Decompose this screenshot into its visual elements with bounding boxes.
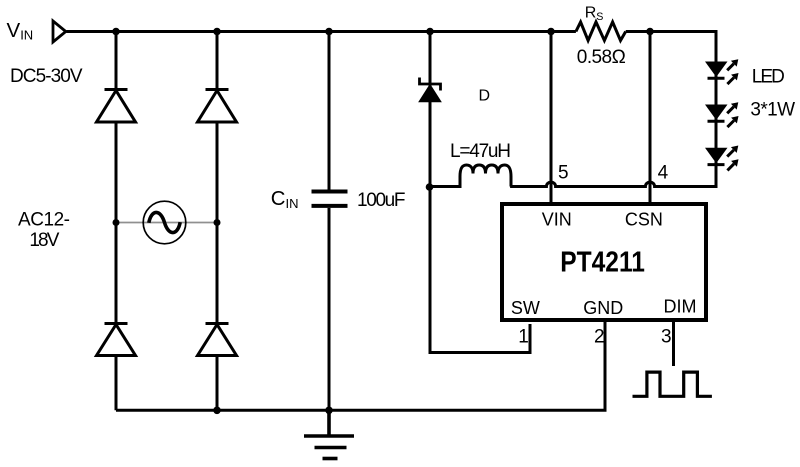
svg-text:LED: LED	[752, 66, 785, 87]
AC source V1	[143, 201, 186, 244]
wire LED chain	[715, 32, 718, 188]
node junction top rail / pin5	[547, 28, 555, 36]
svg-text:PT4211: PT4211	[560, 247, 645, 279]
node junction bottom rail / ground	[325, 407, 333, 415]
node junction bottom rail / right leg	[213, 407, 221, 415]
svg-text:4: 4	[658, 163, 669, 184]
wire top rail (RS right to LED chain)	[626, 30, 718, 33]
wire AC source connector	[116, 222, 217, 224]
capacitor CIN plates	[312, 192, 348, 206]
LED D6	[705, 102, 739, 127]
wire pin5 VIN lead	[550, 32, 553, 203]
PWM dimming waveform	[633, 372, 712, 396]
diode D1 (bridge upper-left)	[97, 90, 136, 123]
wire diode-D branch and SW loop	[430, 32, 530, 353]
svg-text:D: D	[479, 88, 491, 105]
node junction top rail / pin4	[646, 28, 654, 36]
diode D2 (bridge upper-right)	[198, 90, 237, 123]
svg-text:18V: 18V	[29, 230, 59, 251]
node junction top rail / left leg	[112, 28, 120, 36]
ground symbol	[304, 410, 354, 458]
svg-text:2: 2	[594, 327, 605, 348]
node junction inductor / diode / SW	[426, 183, 434, 191]
wire pin4 CSN lead	[649, 32, 652, 203]
wire bridge right leg	[216, 32, 219, 411]
svg-text:100uF: 100uF	[357, 190, 406, 211]
node junction top rail / CIN	[325, 28, 333, 36]
svg-text:DIM: DIM	[664, 297, 697, 317]
inductor L1	[430, 165, 512, 187]
wire output line with hops (inductor to LED chain)	[510, 182, 717, 186]
LED D7	[705, 146, 739, 171]
node junction top rail / right leg	[213, 28, 221, 36]
wire DIM pin lead	[672, 322, 675, 366]
svg-text:GND: GND	[583, 298, 623, 318]
wire top rail (VIN to RS left)	[67, 30, 576, 33]
svg-text:AC12-: AC12-	[18, 209, 70, 230]
svg-text:DC5-30V: DC5-30V	[10, 66, 83, 87]
svg-text:CSN: CSN	[625, 210, 663, 230]
svg-text:3*1W: 3*1W	[750, 100, 795, 121]
diode D4 (bridge lower-right)	[198, 324, 237, 356]
IC U1 PT4211 body	[502, 204, 706, 320]
node junction AC left	[113, 219, 120, 226]
wire bottom rail (from GND pin to bridge)	[116, 322, 605, 410]
schottky diode D	[420, 78, 441, 102]
svg-text:L=47uH: L=47uH	[450, 141, 511, 162]
diode D3 (bridge lower-left)	[97, 324, 136, 356]
node junction AC right	[214, 219, 221, 226]
node junction top rail / diode D	[426, 28, 434, 36]
svg-text:0.58Ω: 0.58Ω	[577, 47, 626, 68]
input port connector VIN	[53, 21, 66, 42]
capacitor CIN lower lead	[328, 208, 331, 410]
LED D5	[705, 59, 739, 84]
svg-text:VIN: VIN	[542, 210, 572, 230]
resistor RS zigzag	[576, 22, 626, 41]
svg-text:SW: SW	[511, 298, 540, 318]
svg-text:5: 5	[558, 163, 569, 184]
capacitor CIN upper lead	[328, 32, 331, 190]
svg-text:3: 3	[661, 327, 672, 348]
wire bridge left leg	[115, 32, 118, 411]
svg-text:1: 1	[518, 327, 529, 348]
